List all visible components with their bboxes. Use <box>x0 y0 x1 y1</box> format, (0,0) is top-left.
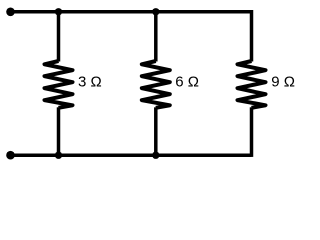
node junction dot R1 top <box>55 8 62 15</box>
resistor R3 zigzag <box>238 61 266 108</box>
resistor R2 6 ohm branch <box>142 12 170 155</box>
resistor R1 3 ohm branch <box>45 12 73 155</box>
resistor R2 zigzag <box>142 61 170 108</box>
node terminal dot bottom-left <box>6 151 15 160</box>
wire lead top R3 <box>250 10 254 62</box>
node junction dot R2 top <box>152 8 159 15</box>
wire top rail <box>11 10 252 14</box>
node junction dot R2 bottom <box>152 152 159 159</box>
resistor R3 9 ohm branch (right side) <box>238 10 266 157</box>
svg-text:9 Ω: 9 Ω <box>271 74 295 91</box>
node junction dot R1 bottom <box>55 152 62 159</box>
wire lead bottom R1 <box>57 107 61 155</box>
wire lead bottom R3 <box>250 107 254 157</box>
wire lead top R2 <box>154 12 158 62</box>
wire bottom rail <box>11 153 252 157</box>
svg-text:3 Ω: 3 Ω <box>78 74 102 91</box>
node terminal dot top-left <box>6 8 15 17</box>
svg-text:6 Ω: 6 Ω <box>175 74 199 91</box>
resistor R1 zigzag <box>45 61 73 108</box>
wire lead top R1 <box>57 12 61 62</box>
wire lead bottom R2 <box>154 107 158 155</box>
